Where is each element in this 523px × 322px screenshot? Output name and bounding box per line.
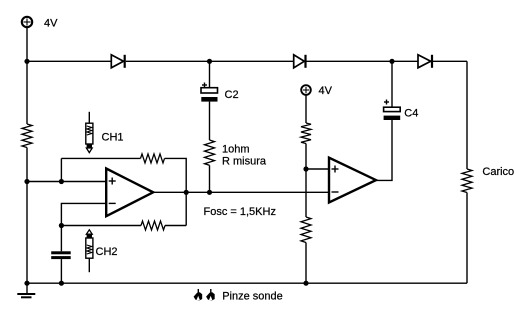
svg-text:4V: 4V [44, 17, 58, 29]
svg-text:1ohm: 1ohm [222, 143, 250, 155]
svg-text:Fosc = 1,5KHz: Fosc = 1,5KHz [204, 206, 276, 218]
svg-text:Carico: Carico [482, 166, 514, 178]
svg-text:C4: C4 [404, 107, 418, 119]
svg-text:Pinze sonde: Pinze sonde [222, 290, 283, 302]
svg-text:4V: 4V [319, 85, 333, 97]
svg-text:C2: C2 [225, 89, 239, 101]
svg-text:CH2: CH2 [96, 246, 118, 258]
svg-text:R misura: R misura [222, 156, 267, 168]
svg-text:CH1: CH1 [102, 131, 124, 143]
